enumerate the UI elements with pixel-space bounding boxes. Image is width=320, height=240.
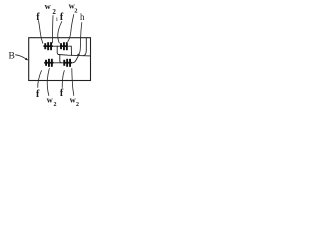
crystal w2 bottom-left [44,59,53,67]
lead w2 bottom-left [47,69,49,96]
lead W2 top-mid [68,15,74,42]
svg-text:2: 2 [74,8,77,15]
lead f top-left [39,21,43,44]
svg-text:B: B [9,52,15,62]
svg-text:2: 2 [52,8,56,16]
crystal W2 top-right [60,42,68,50]
wire midline to right edge [59,55,91,56]
lead f top-mid [58,22,62,44]
svg-text:w: w [45,1,52,11]
lead f bottom-left [38,71,42,88]
svg-text:2: 2 [54,102,57,108]
wire C4 right diagonal up to midline [71,56,78,63]
crystal w2 bottom-right [63,59,72,67]
wire staircase down from top row [57,46,59,54]
svg-text:i: i [56,16,58,23]
wire C2 right down to midline [69,46,72,55]
svg-text:2: 2 [76,102,79,108]
lead h [78,23,82,55]
lead W2 top-left [51,16,54,44]
wire top edge down to midline right [83,38,86,56]
wire C3-C4 [54,62,63,64]
lead B arrow [16,55,27,59]
arrowhead B [25,58,28,61]
arrowhead h [77,54,80,56]
svg-text:h: h [80,12,85,22]
lead f bottom-right [62,71,64,88]
crystal W2 top-left [43,42,52,50]
wire C1-C2 [52,45,60,47]
housing box h [29,38,91,81]
wire branch down to bottom row [60,55,62,63]
lead w2 bottom-right [72,69,74,96]
